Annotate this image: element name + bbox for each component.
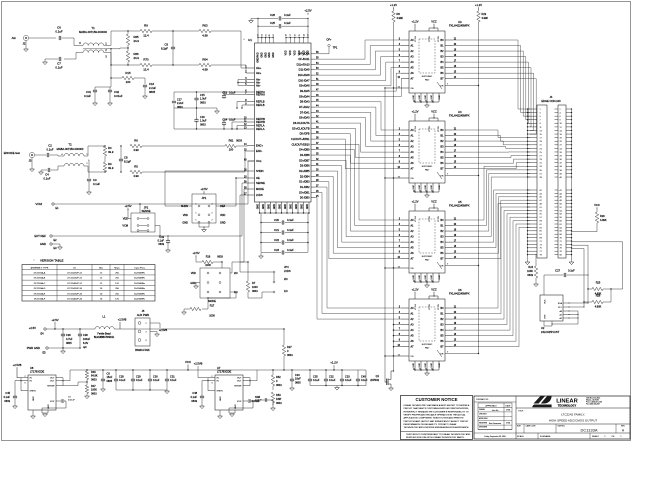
wire +2.5V feed (46, 328, 95, 330)
svg-text:C32: C32 (329, 376, 334, 379)
svg-text:U8: U8 (30, 366, 34, 370)
wire T2 center tap to C3 (88, 160, 89, 178)
wire DB5 to U5 (315, 176, 401, 253)
svg-text:J2: J2 (23, 42, 26, 46)
svg-text:0603: 0603 (200, 123, 206, 126)
svg-text:2N7002: 2N7002 (370, 379, 379, 382)
svg-text:REV.: REV. (621, 426, 625, 428)
svg-text:D2-/DB4: D2-/DB4 (300, 175, 310, 178)
svg-text:MODE: MODE (256, 187, 264, 191)
svg-text:0.1uF: 0.1uF (93, 182, 100, 186)
wire R64 to U1 pin2 (211, 65, 248, 73)
wire U8 SENSE pin (56, 385, 63, 387)
svg-text:U6: U6 (458, 288, 462, 292)
svg-text:FXLH42245MPX: FXLH42245MPX (449, 292, 470, 296)
svg-text:GND: GND (269, 52, 271, 57)
wire DA11 to U3 (315, 40, 401, 59)
wire U6 gnd pins (414, 361, 416, 370)
wire CLK/OF bank A wire 6 (315, 134, 401, 163)
svg-text:FXLH42245MPX: FXLH42245MPX (449, 204, 470, 208)
svg-text:OE: OE (411, 268, 415, 270)
svg-text:GND: GND (439, 95, 441, 100)
svg-text:MODE: MODE (208, 299, 216, 303)
svg-text:0.1uF: 0.1uF (313, 379, 320, 382)
svg-text:62: 62 (560, 224, 562, 226)
svg-text:24.9: 24.9 (134, 56, 140, 60)
wire U1 top GND pins (257, 38, 259, 43)
svg-text:VERSION TABLE: VERSION TABLE (40, 259, 63, 263)
svg-text:75: 75 (540, 248, 542, 250)
svg-text:D1+/DB3: D1+/DB3 (299, 181, 310, 184)
svg-text:GND: GND (220, 222, 226, 225)
svg-text:JP2: JP2 (144, 206, 149, 210)
svg-text:GND: GND (235, 404, 237, 409)
wire J2 to C6 (29, 37, 56, 39)
svg-text:GND: GND (413, 185, 415, 190)
wire to decoupling caps C41 C42 (110, 78, 112, 87)
svg-text:57: 57 (540, 217, 542, 219)
wire U5 input stubs (401, 219, 409, 221)
svg-text:8.2pF: 8.2pF (161, 47, 168, 51)
svg-text:0603: 0603 (252, 290, 258, 293)
svg-text:GND: GND (431, 95, 433, 100)
svg-text:1000: 1000 (205, 264, 211, 267)
svg-text:REFHB: REFHB (256, 120, 265, 124)
svg-text:MABA-007159-000000: MABA-007159-000000 (79, 30, 107, 34)
power rail VCC bottom (70, 369, 358, 371)
svg-text:R16: R16 (206, 256, 211, 259)
svg-text:R70: R70 (143, 58, 149, 62)
svg-text:46: 46 (560, 197, 562, 199)
wire U7 SHDN pin (208, 381, 215, 391)
wire J4 gnd bus left (527, 109, 529, 262)
svg-text:52: 52 (560, 207, 562, 209)
svg-text:C42: C42 (114, 90, 120, 94)
svg-text:Fax: (408) 434-0507: Fax: (408) 434-0507 (586, 404, 600, 406)
svg-text:0805: 0805 (149, 90, 156, 94)
svg-text:PWR GND: PWR GND (27, 346, 40, 350)
svg-text:D5+/CLKOUTB: D5+/CLKOUTB (292, 127, 310, 130)
svg-text:Gina Tamasanis: Gina Tamasanis (489, 423, 501, 425)
svg-text:12.4: 12.4 (143, 34, 149, 38)
svg-text:9: 9 (540, 123, 541, 125)
wire J4 pin stubs and junction dots (530, 108, 537, 110)
svg-text:PAD: PAD (425, 347, 430, 350)
svg-text:C21: C21 (274, 228, 279, 232)
wire T1 pin1 to node (104, 31, 111, 46)
svg-text:PERFORMANCE OR RELIABILITY. CO: PERFORMANCE OR RELIABILITY. CONTACT LINE… (404, 423, 457, 426)
wire J5 pin2 ground (150, 332, 157, 335)
svg-text:8: 8 (560, 120, 561, 122)
svg-text:49: 49 (540, 204, 542, 206)
exposed pad U6 (419, 307, 435, 341)
svg-text:VCC: VCC (431, 288, 437, 292)
svg-text:T1: T1 (91, 26, 95, 30)
svg-text:VCCA: VCCA (414, 126, 417, 132)
svg-text:SHDN: SHDN (181, 205, 188, 208)
ground U7 (219, 410, 221, 416)
svg-text:4.99: 4.99 (202, 34, 208, 38)
svg-text:J3: J3 (29, 159, 32, 163)
svg-text:DC1133A-B: DC1133A-B (34, 277, 46, 280)
wire DA1 to U4 (315, 112, 401, 141)
svg-text:66: 66 (560, 231, 562, 233)
svg-text:FXLH42245MPX: FXLH42245MPX (449, 114, 470, 118)
svg-text:SHDN: SHDN (217, 391, 224, 393)
svg-text:R63: R63 (202, 24, 208, 28)
svg-text:VCC: VCC (431, 110, 437, 114)
wire U6 OE pin (385, 355, 409, 357)
svg-text:70: 70 (560, 238, 562, 240)
svg-text:0805: 0805 (295, 381, 301, 384)
svg-text:40: 40 (560, 177, 562, 179)
svg-text:1: 1 (540, 109, 541, 111)
svg-text:10-250MHz: 10-250MHz (134, 278, 145, 280)
svg-text:DWG NO.: DWG NO. (558, 426, 566, 428)
svg-text:73: 73 (540, 244, 542, 246)
svg-text:VCC: VCC (431, 200, 437, 204)
ground U1 bypass (260, 253, 262, 257)
svg-text:FXLH42245MPX: FXLH42245MPX (449, 24, 470, 28)
wire C7 to ground (45, 59, 58, 62)
wire U4 gnd pins (414, 183, 416, 192)
wire U7 BYP cap (243, 400, 248, 402)
svg-text:1/7/06: 1/7/06 (506, 423, 510, 425)
svg-text:63: 63 (540, 227, 542, 229)
svg-text:R25: R25 (596, 282, 601, 285)
svg-text:80: 80 (560, 255, 562, 257)
svg-text:GND: GND (425, 185, 427, 190)
svg-text:DATE: DATE (506, 404, 512, 407)
svg-text:69: 69 (540, 238, 542, 240)
svg-text:EXPOSED: EXPOSED (422, 76, 433, 78)
svg-text:LTC2242 FAMILY,: LTC2242 FAMILY, (561, 413, 585, 417)
wire DA2 to U4 (315, 107, 401, 135)
svg-text:John Wu: John Wu (492, 410, 499, 412)
svg-text:OE#: OE# (220, 205, 226, 208)
svg-text:D11+/DA10: D11+/DA10 (297, 63, 310, 66)
svg-text:42: 42 (560, 190, 562, 192)
wire DA9 to U3 (315, 51, 401, 70)
wire SCL net (569, 249, 584, 307)
svg-text:32: 32 (560, 163, 562, 165)
wire Q1 drain (391, 371, 394, 374)
svg-text:LTC2241UP-10: LTC2241UP-10 (67, 293, 83, 295)
svg-text:4.99K: 4.99K (595, 306, 602, 309)
svg-text:0603: 0603 (200, 101, 206, 104)
svg-text:0.1uF: 0.1uF (46, 148, 53, 152)
wire DB3 to U6 (315, 187, 401, 308)
svg-text:26: 26 (560, 152, 562, 154)
svg-text:35: 35 (540, 170, 542, 172)
svg-text:2/3: 2/3 (234, 272, 238, 275)
svg-text:12: 12 (560, 127, 562, 129)
svg-text:Ain+: Ain+ (256, 71, 262, 75)
wire VCC to pullups (572, 242, 623, 289)
svg-text:D7+/DA2: D7+/DA2 (299, 106, 310, 109)
svg-text:27: 27 (540, 155, 542, 157)
svg-text:GND: GND (425, 95, 427, 100)
wire DA7 to U3 (315, 62, 401, 80)
svg-text:60: 60 (269, 34, 271, 36)
svg-text:VDD: VDD (220, 214, 225, 217)
title block bottom row (516, 432, 630, 434)
svg-text:R61: R61 (229, 139, 234, 143)
svg-text:DC1133A-D: DC1133A-D (34, 287, 46, 290)
wire LVDS jumper nets (240, 255, 273, 272)
svg-text:28: 28 (560, 155, 562, 157)
wire U1 top VDD pins (285, 38, 287, 43)
svg-text:+2.5V: +2.5V (200, 187, 207, 191)
svg-text:Bits: Bits (99, 267, 103, 270)
svg-text:C28: C28 (119, 376, 124, 379)
svg-text:Msps: Msps (114, 268, 119, 270)
svg-text:CLKOUT+/DB11: CLKOUT+/DB11 (291, 138, 310, 141)
wire J3 to C2 (35, 154, 46, 156)
svg-text:50: 50 (560, 204, 562, 206)
svg-text:GND: GND (419, 95, 421, 100)
customer notice box (401, 396, 473, 440)
svg-text:0603: 0603 (158, 243, 164, 246)
svg-text:10-250MHz: 10-250MHz (134, 299, 145, 301)
svg-text:39: 39 (540, 177, 542, 179)
wire DA6 to U3 (315, 68, 401, 86)
svg-text:4.99K: 4.99K (397, 17, 404, 20)
svg-text:18: 18 (560, 138, 562, 140)
svg-text:C33: C33 (345, 376, 350, 379)
svg-text:LINEAR: LINEAR (556, 399, 578, 405)
svg-text:SDA: SDA (558, 302, 563, 305)
svg-text:2: 2 (560, 109, 561, 111)
wire DB4 to U5 (315, 182, 401, 259)
svg-text:37: 37 (540, 173, 542, 175)
svg-text:GND: GND (431, 185, 433, 190)
svg-text:0603: 0603 (91, 392, 97, 395)
svg-text:LTC2242UP-10: LTC2242UP-10 (67, 288, 83, 290)
svg-text:OUT: OUT (237, 381, 242, 383)
svg-text:GND: GND (413, 275, 415, 280)
wire VCM net (54, 161, 254, 204)
svg-text:0805: 0805 (66, 342, 72, 345)
wire U1 ain3-5 join (238, 80, 248, 86)
ground U3 (426, 102, 428, 105)
svg-text:TITLE:: TITLE: (518, 411, 524, 413)
svg-text:Ain+: Ain+ (256, 66, 262, 70)
wire U3 gnd pins (414, 93, 416, 102)
svg-text:+2.5VB: +2.5VB (118, 318, 127, 322)
svg-text:+2.5V: +2.5V (124, 204, 131, 208)
wire SENSE net (155, 226, 160, 237)
wire DA3 to U4 (315, 102, 401, 130)
customer notice divider (401, 431, 473, 433)
svg-text:+1.2V: +1.2V (330, 361, 338, 365)
wire +2.5VB distribution (120, 328, 284, 330)
svg-text:APPLICATION. COMPONENT SUBSTIT: APPLICATION. COMPONENT SUBSTITUTION AND … (404, 417, 464, 420)
svg-text:GND: GND (419, 185, 421, 190)
svg-text:VDD: VDD (295, 50, 297, 55)
wire CLK/OF bank A wire 7 (315, 139, 401, 169)
svg-text:0.1uF: 0.1uF (153, 379, 160, 382)
svg-text:CONTRACT NO.: CONTRACT NO. (476, 398, 489, 401)
svg-text:HIGH SPEED ADC/CMOS OUTPUT: HIGH SPEED ADC/CMOS OUTPUT (549, 419, 598, 423)
svg-text:ENCODE Gen: ENCODE Gen (4, 152, 21, 155)
svg-text:C48: C48 (192, 392, 197, 395)
svg-text:4.99: 4.99 (133, 148, 139, 152)
svg-text:C29: C29 (136, 376, 141, 379)
svg-text:0.1uF: 0.1uF (287, 248, 294, 252)
svg-text:GND: GND (220, 396, 222, 401)
svg-text:71: 71 (540, 241, 542, 243)
svg-text:U1: U1 (248, 38, 252, 42)
wire bus U6 outputs to J4 (453, 204, 530, 308)
svg-text:24LC025H-I/ST: 24LC025H-I/ST (541, 330, 560, 334)
wire C6 to T1 (62, 37, 74, 39)
svg-text:15: 15 (540, 134, 542, 136)
svg-text:opt: opt (83, 346, 87, 349)
svg-text:C23: C23 (274, 248, 279, 252)
wire U6 unused inputs tie (394, 324, 402, 326)
wire DB10 to U5 (315, 150, 401, 226)
svg-text:U4: U4 (458, 110, 462, 114)
svg-text:10-250MHz: 10-250MHz (134, 273, 145, 275)
wire REFLA rail (174, 128, 248, 130)
svg-text:PAD: PAD (425, 79, 430, 82)
svg-text:REFLA: REFLA (256, 123, 265, 127)
svg-text:0603: 0603 (217, 256, 223, 259)
svg-text:0.1uF: 0.1uF (119, 379, 126, 382)
wire bus U5 outputs to J4 (453, 166, 530, 220)
svg-text:EXPOSED: EXPOSED (422, 166, 433, 168)
svg-text:GND: GND (33, 396, 35, 401)
svg-text:CHECKED: CHECKED (479, 414, 487, 416)
svg-text:R64: R64 (202, 58, 208, 62)
svg-text:47: 47 (540, 200, 542, 202)
svg-text:SHEET: SHEET (592, 436, 600, 438)
svg-text:C41: C41 (86, 90, 92, 94)
svg-text:FILENAME: FILENAME (540, 435, 551, 438)
wire U3 output stubs (445, 39, 453, 41)
wire OE to U1 and buffers (236, 177, 248, 179)
capacitor C16 (134, 78, 145, 84)
svg-text:0.1uF: 0.1uF (229, 92, 236, 95)
svg-text:C25: C25 (270, 21, 275, 25)
svg-text:+1.2V: +1.2V (390, 3, 397, 7)
svg-text:TECHNOLOGY: TECHNOLOGY (558, 404, 577, 408)
svg-text:D11-/DA9: D11-/DA9 (299, 69, 310, 72)
wire U4 OE pin (385, 177, 409, 179)
svg-text:6.3V: 6.3V (83, 342, 88, 345)
svg-text:0.1uF: 0.1uF (43, 177, 50, 181)
svg-text:R6: R6 (134, 139, 138, 143)
svg-text:0.1uF: 0.1uF (55, 30, 63, 34)
svg-text:4.7uF: 4.7uF (66, 338, 73, 341)
svg-text:0603: 0603 (287, 354, 293, 357)
wire DB7 to U5 (315, 166, 401, 242)
svg-text:C17: C17 (177, 99, 182, 102)
svg-text:OE: OE (411, 88, 415, 90)
wire U3 OE pin (385, 87, 409, 89)
wire U8 IN pins (21, 377, 28, 379)
svg-text:30: 30 (560, 159, 562, 161)
svg-text:GND: GND (419, 275, 421, 280)
svg-text:+2.5V: +2.5V (29, 326, 36, 330)
svg-text:ENC+: ENC+ (256, 143, 264, 147)
svg-text:LTC2240UP-12: LTC2240UP-12 (67, 283, 83, 285)
svg-text:51: 51 (540, 207, 542, 209)
svg-text:C9: C9 (164, 43, 168, 47)
exposed pad U4 (419, 129, 435, 163)
svg-text:0603: 0603 (236, 139, 242, 143)
wire R70 to R64 (152, 64, 199, 66)
svg-text:0.01uF: 0.01uF (114, 94, 123, 98)
wire DB6 to U5 (315, 171, 401, 248)
svg-text:8.2pF: 8.2pF (124, 160, 131, 164)
svg-text:31: 31 (540, 163, 542, 165)
wire resistor divider (127, 31, 129, 34)
svg-text:49.9: 49.9 (108, 166, 114, 170)
wire PWR GND (48, 347, 80, 349)
svg-text:GND: GND (431, 363, 433, 368)
wire U5 output stubs (445, 219, 453, 221)
wire REFHB pin to C14 (224, 118, 248, 120)
svg-text:4.99K: 4.99K (600, 219, 607, 222)
svg-text:18: 18 (286, 34, 288, 36)
svg-text:+2.5V: +2.5V (51, 318, 58, 322)
svg-text:36: 36 (560, 170, 562, 172)
wire DA8 to U3 (315, 57, 401, 76)
svg-text:GND: GND (274, 204, 276, 209)
wire encode- to U1 (142, 151, 248, 172)
svg-text:OE: OE (411, 356, 415, 358)
wire DB8 to U5 (315, 160, 401, 236)
svg-text:76: 76 (560, 248, 562, 250)
svg-text:+1.2V: +1.2V (412, 20, 419, 24)
svg-text:R53: R53 (276, 394, 281, 397)
wire REF mid rail (174, 107, 217, 109)
svg-text:0.1uF: 0.1uF (287, 238, 294, 242)
svg-text:0603: 0603 (276, 384, 282, 387)
svg-text:R46: R46 (91, 371, 96, 374)
svg-text:SCALE: SCALE (517, 435, 524, 438)
wire bypass gnd rail right (310, 385, 366, 387)
svg-text:GND: GND (40, 242, 46, 246)
svg-text:23: 23 (540, 148, 542, 150)
buffer IC U5 FXLH42245MPX (409, 211, 445, 273)
svg-text:C22: C22 (274, 238, 279, 242)
svg-text:C16: C16 (149, 82, 155, 86)
wire U1 bypass rails (260, 213, 262, 252)
wire REFLA pins step (232, 122, 248, 129)
svg-text:62: 62 (262, 34, 264, 36)
svg-text:C36: C36 (66, 334, 71, 337)
svg-text:+2.5VB: +2.5VB (194, 362, 203, 366)
svg-text:GND: GND (285, 204, 287, 209)
svg-text:22: 22 (560, 145, 562, 147)
wire MODE select (230, 262, 232, 273)
svg-text:21: 21 (540, 145, 542, 147)
svg-text:B6300-F4SK: B6300-F4SK (135, 349, 150, 352)
wire U5 OE pin (385, 267, 409, 269)
svg-text:79: 79 (540, 255, 542, 257)
svg-text:100K: 100K (91, 389, 97, 392)
svg-text:0.1uF: 0.1uF (345, 379, 352, 382)
svg-text:+1.2V: +1.2V (412, 200, 419, 204)
svg-text:0.1uF: 0.1uF (361, 379, 368, 382)
svg-text:VCC: VCC (185, 360, 191, 364)
svg-text:D5-/OFB: D5-/OFB (300, 133, 310, 136)
wire DA4 to U3 (315, 79, 401, 97)
title block outline (474, 396, 630, 439)
